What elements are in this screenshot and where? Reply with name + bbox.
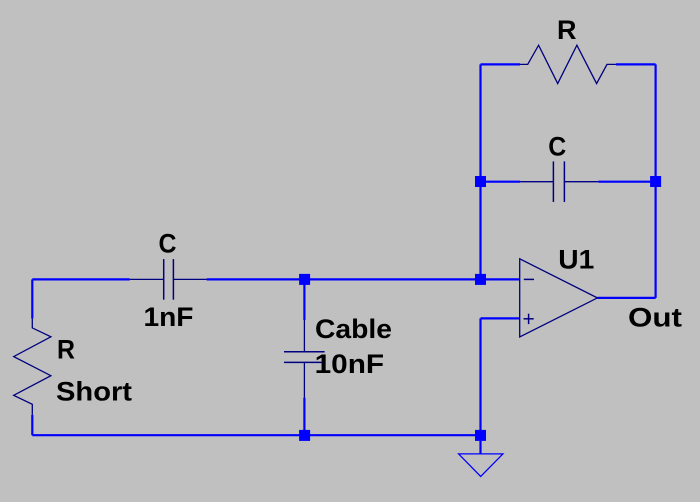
svg-text:Out: Out (628, 303, 682, 333)
svg-text:C: C (548, 131, 566, 161)
svg-text:C: C (159, 229, 177, 259)
svg-text:Short: Short (56, 377, 132, 407)
svg-text:1nF: 1nF (144, 302, 194, 332)
svg-text:R: R (57, 335, 75, 365)
svg-text:10nF: 10nF (315, 349, 385, 379)
svg-text:Cable: Cable (315, 314, 392, 344)
svg-text:U1: U1 (558, 245, 594, 275)
svg-text:R: R (557, 15, 577, 45)
